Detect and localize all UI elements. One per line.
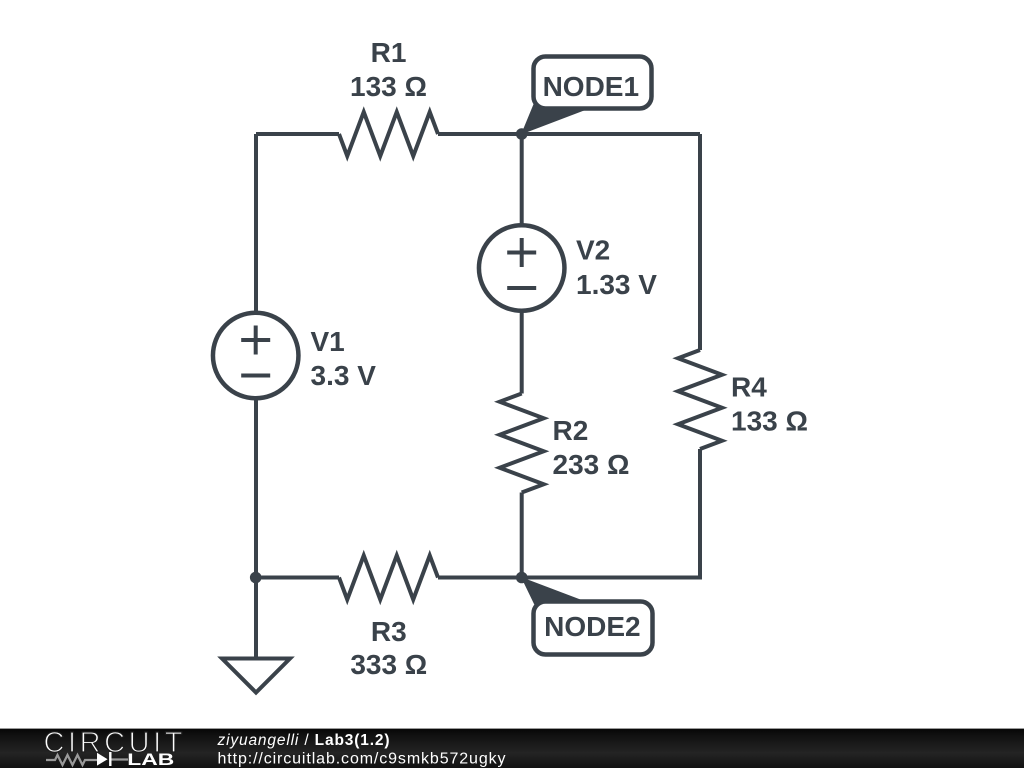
wire left vertical to V1: [254, 134, 258, 311]
label V1 value: [311, 360, 377, 391]
svg-text:V1: V1: [311, 326, 345, 357]
label R4 value: [731, 406, 808, 437]
svg-text:233 Ω: 233 Ω: [553, 449, 630, 480]
label R2 name: [553, 415, 589, 446]
wire R4 to bottom-right corner: [522, 449, 700, 578]
node bottom-left junction dot: [250, 572, 262, 584]
wire R3 to NODE2: [438, 576, 522, 580]
svg-text:NODE1: NODE1: [543, 71, 639, 102]
ground: [222, 659, 290, 693]
wire ground stem: [254, 578, 258, 659]
wire NODE1 to top-right corner: [522, 132, 700, 136]
footer title ziyuangelli / Lab3(1.2): [217, 732, 390, 749]
label R1 value: [350, 71, 427, 102]
voltage source V1: [213, 313, 299, 399]
node NODE1 callout: [521, 57, 652, 135]
label R3 name: [371, 616, 407, 647]
wire R1 to NODE1: [438, 132, 522, 136]
resistor R3: [339, 556, 438, 600]
label V1 name: [311, 326, 345, 357]
wire R2 to NODE2: [520, 493, 524, 578]
wire right vertical to R4: [698, 134, 702, 350]
CircuitLab logo diode squiggle: [46, 752, 128, 766]
svg-text:333 Ω: 333 Ω: [350, 649, 427, 680]
svg-text:R4: R4: [731, 372, 767, 403]
svg-text:1.33 V: 1.33 V: [576, 269, 657, 300]
label V2 name: [576, 235, 610, 266]
node NODE2 callout: [521, 577, 653, 655]
CircuitLab logo wordmark CIRCUIT: [44, 727, 183, 759]
wire bottom-left node to R3: [256, 576, 339, 580]
footer url: [218, 751, 506, 768]
resistor R4: [678, 350, 722, 449]
wire V2 to R2: [520, 313, 524, 394]
svg-text:R2: R2: [553, 415, 589, 446]
node NODE2 junction dot: [516, 572, 528, 584]
wire V1 to bottom-left node: [254, 400, 258, 578]
svg-text:R1: R1: [371, 37, 407, 68]
svg-text:ziyuangelli / Lab3(1.2): ziyuangelli / Lab3(1.2): [217, 732, 390, 749]
wire top-left horizontal: [256, 132, 339, 136]
svg-text:133 Ω: 133 Ω: [350, 71, 427, 102]
voltage source V2: [479, 225, 565, 311]
svg-text:http://circuitlab.com/c9smkb57: http://circuitlab.com/c9smkb572ugky: [218, 751, 506, 768]
CircuitLab logo wordmark LAB: [127, 751, 174, 768]
node NODE1 junction dot: [516, 128, 528, 140]
label V2 value: [576, 269, 657, 300]
svg-text:133 Ω: 133 Ω: [731, 406, 808, 437]
label R4 name: [731, 372, 767, 403]
svg-text:R3: R3: [371, 616, 407, 647]
resistor R2: [500, 394, 544, 493]
resistor R1: [339, 112, 438, 156]
svg-text:3.3 V: 3.3 V: [311, 360, 377, 391]
label R2 value: [553, 449, 630, 480]
label R1 name: [371, 37, 407, 68]
wire NODE1 to V2: [520, 134, 524, 224]
svg-text:V2: V2: [576, 235, 610, 266]
svg-text:NODE2: NODE2: [544, 611, 640, 642]
label R3 value: [350, 649, 427, 680]
footer bar: [0, 729, 1024, 768]
svg-text:LAB: LAB: [127, 751, 174, 768]
